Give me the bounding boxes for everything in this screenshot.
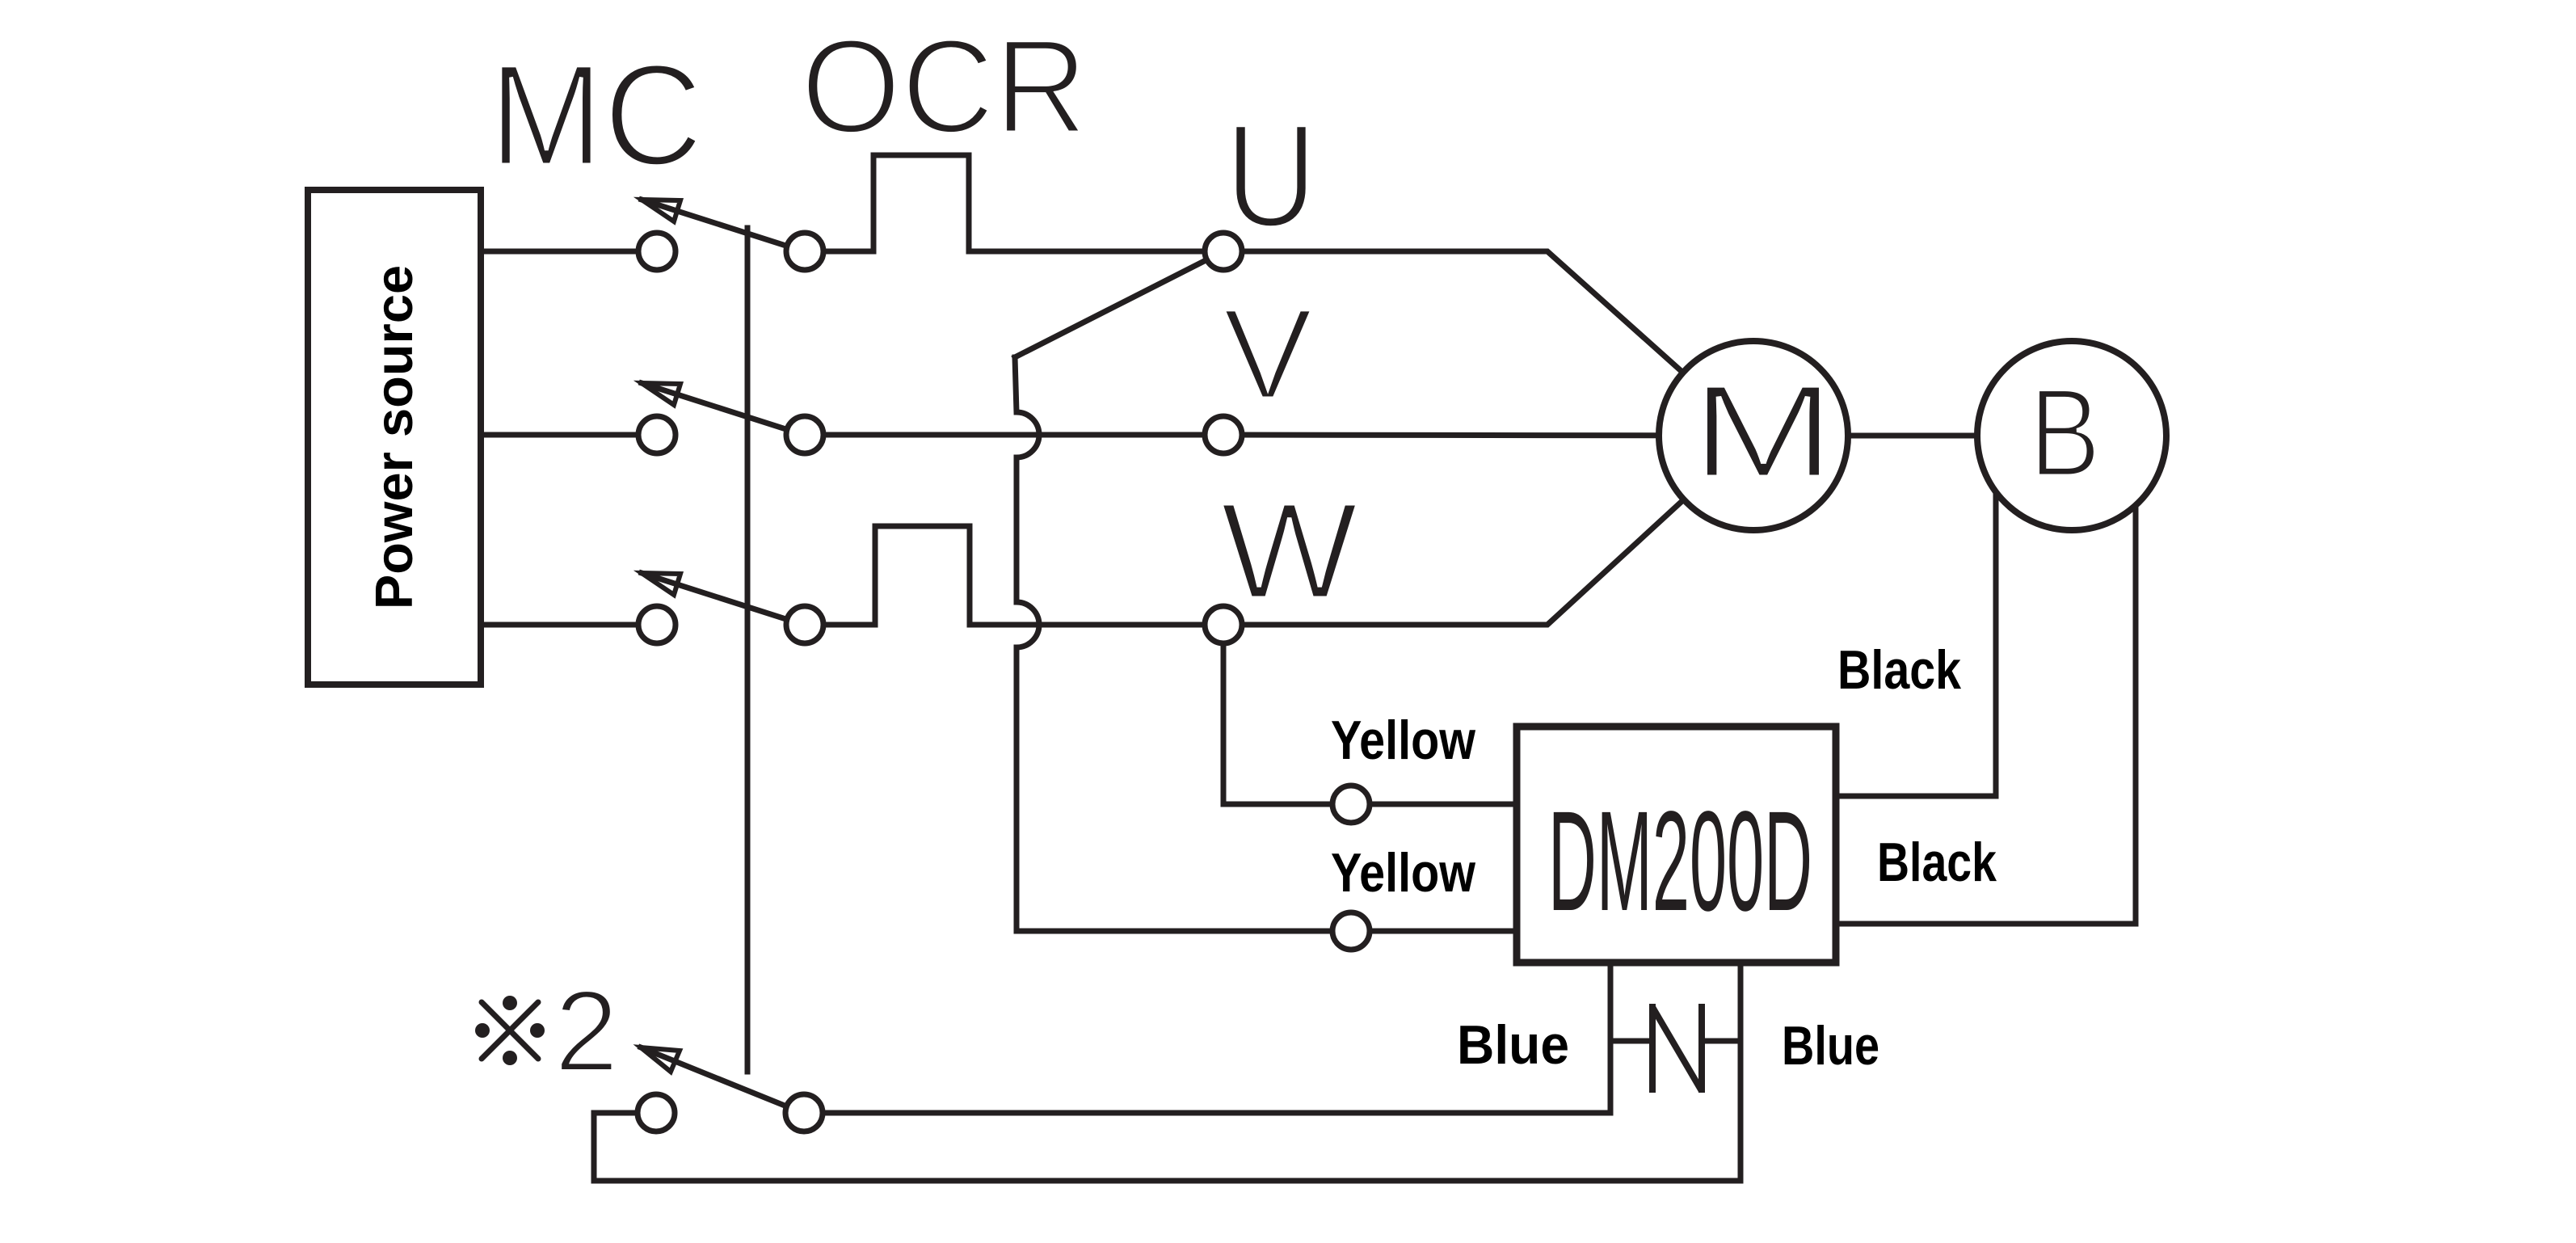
terminal V xyxy=(1205,416,1242,453)
wire row3 power to MC contact xyxy=(481,622,657,628)
aux switch left stub and bottom return wire xyxy=(594,960,1740,1181)
motor M circle xyxy=(1659,341,1848,530)
wire row2 power to MC contact xyxy=(481,432,657,438)
reference mark symbol xyxy=(482,1002,538,1059)
DM200D box xyxy=(1517,727,1836,963)
MC contact row3 xyxy=(638,606,676,643)
aux switch lever xyxy=(641,1047,793,1109)
wire row2 V to motor xyxy=(1223,435,1753,436)
terminal U xyxy=(1205,233,1242,270)
svg-text:U: U xyxy=(1225,93,1317,258)
N contact stubs xyxy=(1610,1039,1652,1044)
svg-text:W: W xyxy=(1220,474,1358,628)
yellow lead contact 2 xyxy=(1332,912,1370,950)
yellow lead contact 1 xyxy=(1332,786,1370,823)
wire row1 U to motor bend xyxy=(1223,251,1753,436)
wire vertical with hops to yellow lead 2 xyxy=(1015,357,1517,931)
MC contact row2 xyxy=(638,416,676,453)
terminal W xyxy=(1205,606,1242,643)
wire row1 OCR with heater bump xyxy=(805,155,1223,251)
MC lever row1 xyxy=(642,200,793,248)
arrowhead row1 xyxy=(642,200,680,221)
wire row3 W to motor bend xyxy=(1223,436,1753,625)
aux switch output wire to N contact left lead xyxy=(804,960,1610,1113)
svg-text:MC: MC xyxy=(489,34,703,196)
arrowhead row2 xyxy=(642,383,680,405)
svg-text:Power source: Power source xyxy=(364,265,423,609)
svg-text:OCR: OCR xyxy=(801,12,1088,162)
MC contact row1 xyxy=(638,233,676,270)
svg-text:V: V xyxy=(1223,281,1313,426)
svg-text:M: M xyxy=(1690,357,1836,505)
aux switch contacts xyxy=(638,1094,675,1131)
wire row2 MC to V terminal xyxy=(805,432,1223,438)
arrowhead row3 xyxy=(642,573,680,595)
svg-text:2: 2 xyxy=(554,967,619,1096)
N contact bars and diagonal xyxy=(1649,1004,1656,1093)
wire row1 power to MC contact xyxy=(481,249,657,255)
wire row3 OCR with heater bump xyxy=(805,526,1223,625)
svg-text:Blue: Blue xyxy=(1457,1014,1569,1076)
svg-text:Blue: Blue xyxy=(1782,1015,1879,1077)
wire black 2 brake right lead xyxy=(1836,461,2136,924)
svg-text:Yellow: Yellow xyxy=(1331,710,1476,771)
svg-text:Yellow: Yellow xyxy=(1331,842,1476,904)
svg-text:DM200D: DM200D xyxy=(1548,782,1812,941)
brake B circle xyxy=(1977,341,2166,530)
svg-text:Black: Black xyxy=(1877,832,1997,893)
wire diagonal U to DM200D vertical xyxy=(1015,251,1223,357)
MC lever row2 xyxy=(642,383,793,432)
svg-text:Black: Black xyxy=(1837,639,1961,701)
MC lever row3 xyxy=(642,573,793,621)
wire W terminal down to yellow lead 1 xyxy=(1223,625,1517,804)
arrowhead aux switch xyxy=(641,1047,680,1072)
power source box xyxy=(308,190,481,685)
wire motor to brake xyxy=(1753,433,2072,439)
svg-text:B: B xyxy=(2029,363,2101,504)
wire black 1 brake left lead xyxy=(1836,461,1996,796)
MC gang link line xyxy=(745,228,751,1072)
